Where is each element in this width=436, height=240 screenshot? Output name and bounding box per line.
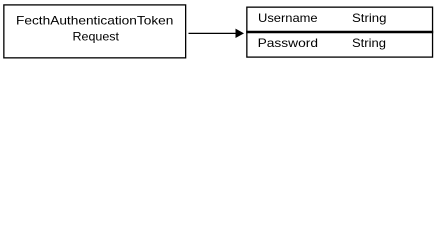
box FecthAuthenticationTokenRequest xyxy=(4,5,186,58)
svg-text:Request: Request xyxy=(73,30,120,43)
svg-text:Password: Password xyxy=(258,37,318,50)
box token table xyxy=(247,7,433,57)
svg-text:String: String xyxy=(352,37,386,50)
divider row separator xyxy=(246,31,433,34)
wire arrow shaft xyxy=(189,32,237,34)
svg-text:Username: Username xyxy=(258,12,318,25)
svg-text:String: String xyxy=(352,12,387,25)
arrowhead xyxy=(236,29,245,38)
svg-text:FecthAuthenticationToken: FecthAuthenticationToken xyxy=(16,15,173,28)
